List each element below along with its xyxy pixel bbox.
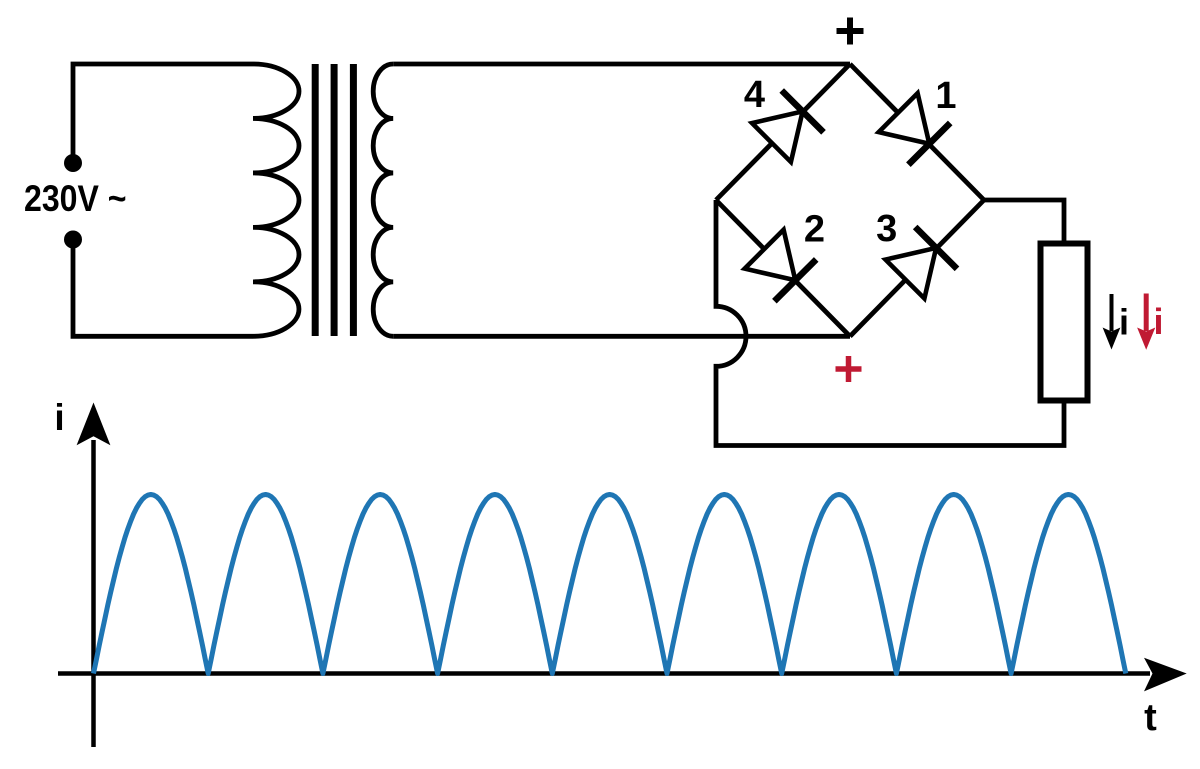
transformer core bar 3 bbox=[350, 64, 357, 336]
plus sign bottom (red) bbox=[836, 356, 862, 382]
source terminal dot bottom bbox=[64, 231, 82, 249]
diode D2 bbox=[745, 230, 796, 281]
load resistor R bbox=[1041, 244, 1088, 401]
wire primary loop bottom bbox=[73, 240, 253, 337]
bridge diamond edge top-left bbox=[716, 64, 850, 200]
svg-text:i: i bbox=[1119, 302, 1129, 343]
bridge diamond edge bottom-left bbox=[716, 200, 850, 336]
transformer core bar 2 bbox=[331, 64, 338, 336]
svg-text:3: 3 bbox=[876, 208, 897, 250]
transformer secondary winding L2 bbox=[373, 64, 393, 336]
svg-text:230V ~: 230V ~ bbox=[24, 178, 127, 219]
wire right node to load bbox=[984, 200, 1064, 241]
svg-text:4: 4 bbox=[744, 74, 765, 116]
graph i-axis bbox=[91, 440, 96, 747]
bridge diamond edge top-right bbox=[850, 64, 984, 200]
plus sign top (black) bbox=[837, 18, 864, 45]
current arrow black bbox=[1110, 294, 1114, 331]
svg-text:t: t bbox=[1144, 697, 1157, 739]
current arrow red bbox=[1144, 294, 1149, 332]
svg-text:1: 1 bbox=[935, 75, 956, 117]
graph t-axis arrowhead bbox=[1144, 658, 1187, 692]
rectified current curve bbox=[94, 495, 1126, 674]
diode D3 bbox=[886, 248, 937, 299]
diode D4 bbox=[752, 111, 803, 162]
svg-text:i: i bbox=[1153, 301, 1163, 342]
graph t-axis bbox=[58, 671, 1150, 676]
transformer primary winding L1 bbox=[253, 64, 299, 336]
graph i-axis arrowhead bbox=[77, 403, 111, 446]
wire secondary top to bridge bbox=[393, 62, 850, 67]
source terminal dot top bbox=[64, 154, 82, 172]
svg-text:i: i bbox=[54, 397, 64, 438]
transformer core bar 1 bbox=[312, 64, 319, 336]
wire secondary bottom to bridge bottom node bbox=[393, 334, 850, 339]
wire left node down with hop over secondary wire bbox=[716, 200, 1064, 446]
wire primary loop top bbox=[73, 64, 253, 163]
svg-text:2: 2 bbox=[804, 209, 825, 251]
diode D1 bbox=[879, 93, 930, 144]
bridge diamond edge bottom-right bbox=[850, 200, 984, 336]
